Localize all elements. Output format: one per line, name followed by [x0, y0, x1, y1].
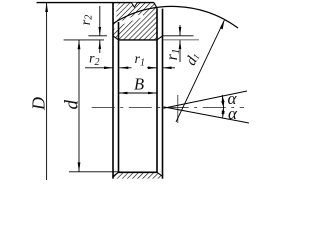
lower alpha line: [164, 107, 250, 123]
r1 vertical dim upper leader + arrow down: [179, 25, 181, 36]
D arrow up: [45, 3, 48, 12]
upper alpha line: [164, 91, 248, 108]
svg-text:D: D: [29, 97, 49, 111]
outer ring OD top line: [37, 2, 155, 4]
svg-text:B: B: [134, 75, 144, 94]
right face vertical x=162.5: [162, 9, 164, 179]
lubrication groove notch: [132, 3, 138, 8]
bore top line: [119, 39, 158, 41]
d1 radius line: [176, 20, 225, 122]
bore chamfer diag top-right: [157, 36, 163, 40]
r1 horizontal dim left arrow (tip 157 pointing right): [147, 67, 157, 69]
d dimension line: [78, 40, 80, 172]
d arrow up: [78, 40, 81, 49]
right bore extension line: [163, 39, 200, 41]
r2 vertical dim upper leader + arrow down: [99, 6, 101, 36]
lower alpha angle arc: [223, 107, 224, 118]
sphere center vertical tick: [177, 95, 179, 123]
B dimension line: [119, 92, 158, 94]
left bore chamfer edge vertical x=118.5: [118, 22, 120, 172]
right chamfer-top extension line: [163, 35, 194, 37]
bore chamfer diag bottom-left: [113, 172, 119, 176]
d dimension extension line bottom: [69, 171, 120, 173]
left face vertical x=113: [112, 3, 114, 179]
upper alpha angle arc: [222, 95, 223, 108]
d dimension extension line top: [64, 39, 104, 41]
bore chamfer diag bottom-right: [157, 172, 163, 176]
axis centerline dash-dot: [92, 107, 244, 109]
r1 horizontal dim right arrow (tip 162.5 pointing left): [163, 67, 176, 69]
white sliver at outer ring left face: [114, 3, 119, 22]
hatched section: bottom inner ring sliver: [113, 172, 163, 178]
r2 vertical dim lower leader + arrow up: [99, 40, 101, 53]
left chamfer-top extension line: [88, 35, 107, 37]
white band below sphere arc: [113, 16, 143, 28]
B arrow left: [119, 92, 128, 95]
r1 vertical dim lower leader + arrow up: [179, 40, 181, 62]
right outer ring face vertical x=157: [156, 8, 158, 172]
r2 horizontal dim line w/ outside arrow right-pointing at x=113: [85, 67, 113, 69]
d1 arrowhead at arc: [220, 20, 225, 30]
D dimension line: [46, 3, 48, 180]
d arrow down: [78, 162, 81, 171]
sphere arc (d1 spherical surface), circle approx center (174,112.5) r 105.5: [113, 6, 238, 28]
B arrow right: [148, 92, 157, 95]
bore chamfer diag top-left: [113, 36, 119, 40]
outer ring OD right chamfer: [154, 3, 157, 9]
hatched section: outer+inner ring upper section: [113, 3, 157, 40]
svg-text:α: α: [228, 104, 238, 123]
bore bottom line: [119, 171, 158, 173]
r2 horizontal dim second arrow (tip 119.3 pointing left) tail to 131.5: [119, 67, 131, 69]
svg-text:d: d: [61, 100, 82, 110]
